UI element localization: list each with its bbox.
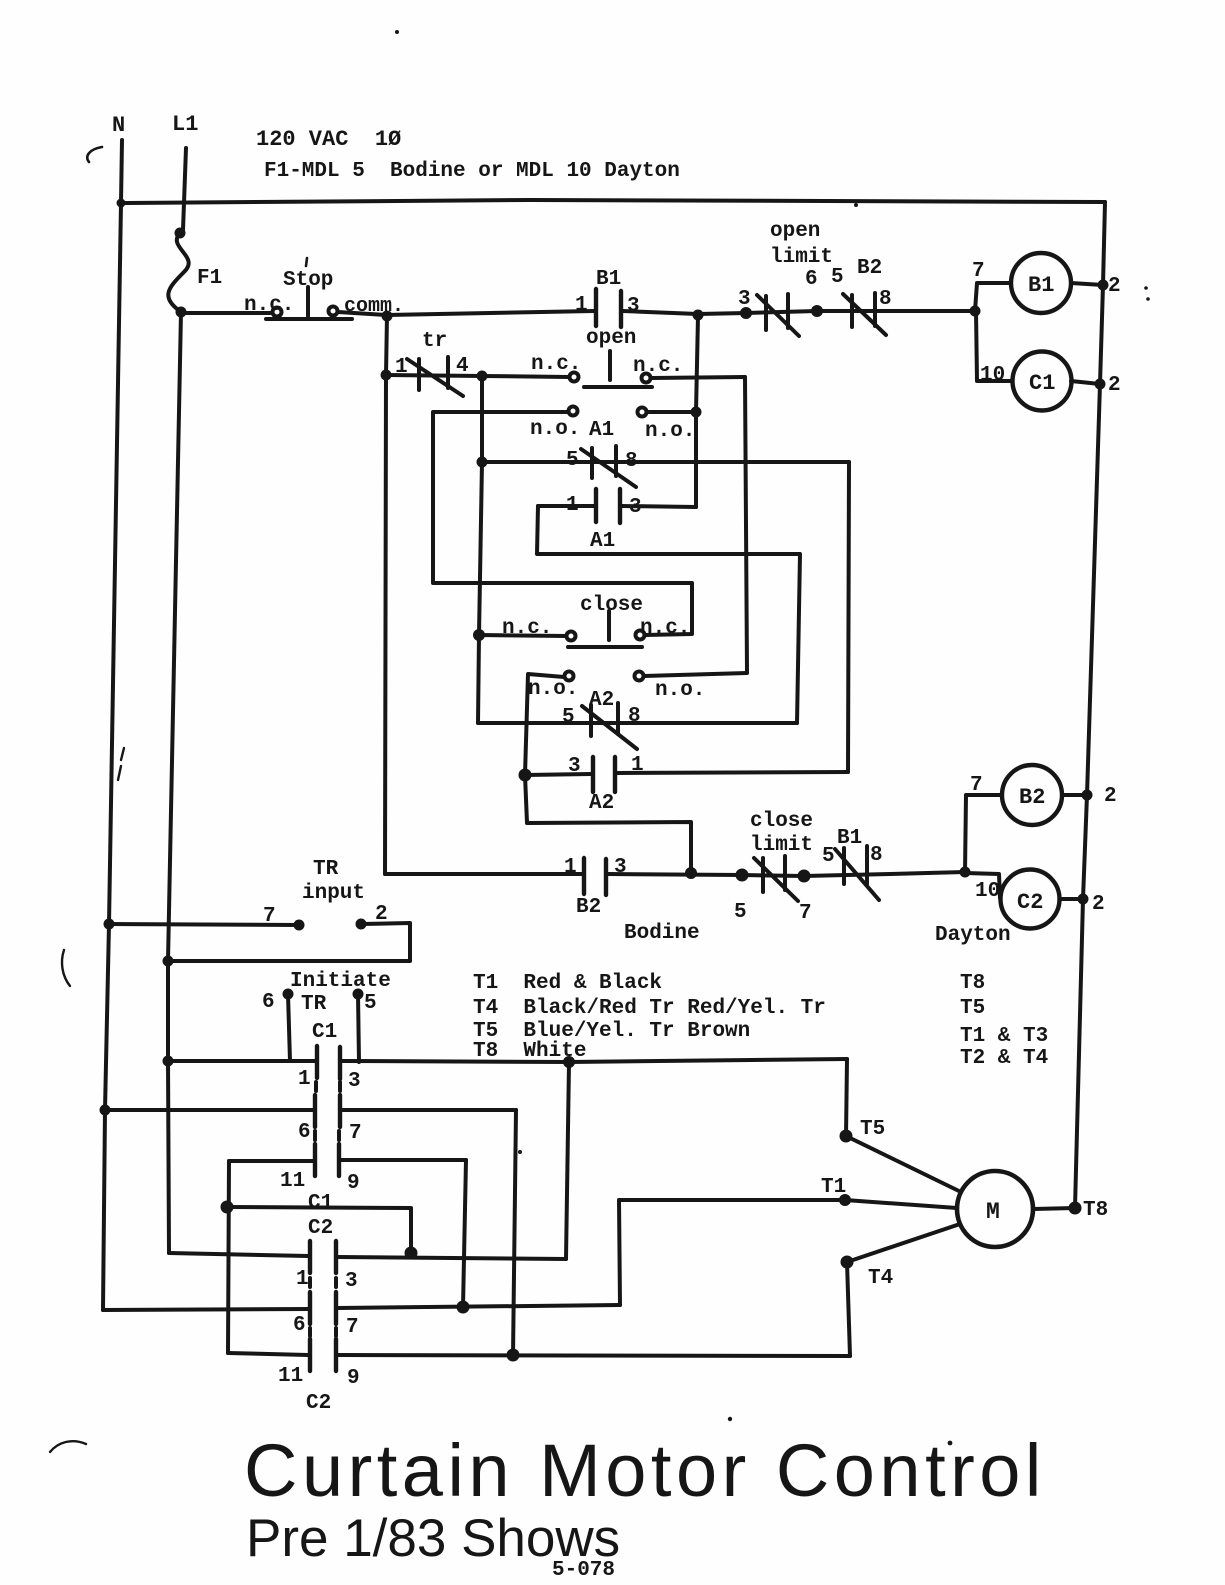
svg-text:tr: tr	[422, 330, 447, 353]
wire T5 to motor	[846, 1136, 961, 1192]
stray scan mark left-middle	[118, 748, 124, 780]
contact C2 1-3	[310, 1241, 566, 1273]
svg-text:n.c.: n.c.	[531, 353, 581, 376]
svg-text:N: N	[112, 113, 125, 138]
svg-text:n.c.: n.c.	[502, 617, 552, 640]
wire right vertical bus	[1075, 202, 1105, 1208]
svg-text:1: 1	[631, 754, 644, 777]
svg-text:F1-MDL 5 Bodine or MDL 10 Day: F1-MDL 5 Bodine or MDL 10 Dayton	[264, 160, 680, 183]
wire A1 5-8 right end down to A2 3-1 rung	[848, 462, 849, 772]
node T1	[839, 1194, 851, 1206]
fuse F1	[168, 232, 188, 312]
wire bracket to coil C2 pin 10	[965, 873, 1000, 898]
wire B2 rung left	[385, 872, 582, 876]
svg-text:C1: C1	[308, 1192, 333, 1215]
junction White tap C1 rung	[563, 1056, 575, 1068]
junction open n.o. right	[691, 407, 702, 418]
svg-text:3: 3	[614, 856, 627, 879]
wire close n.o. right to riser	[644, 673, 747, 676]
contact A2 5-8	[478, 703, 797, 749]
svg-text:7: 7	[263, 905, 276, 928]
junction L1 / C1 1-3 rung	[163, 1056, 174, 1067]
svg-text:3: 3	[345, 1270, 358, 1293]
coil B1	[1011, 253, 1071, 313]
svg-text:C2: C2	[308, 1217, 333, 1240]
terminal Initiate 6	[283, 989, 294, 1000]
speck	[1146, 297, 1150, 301]
svg-text:7: 7	[346, 1316, 359, 1339]
svg-text:T8 White: T8 White	[473, 1040, 586, 1063]
coil C2	[1001, 870, 1060, 929]
svg-text:8: 8	[879, 288, 892, 311]
svg-text:1: 1	[298, 1068, 311, 1091]
coil B2	[1002, 765, 1062, 825]
svg-text:7: 7	[970, 774, 983, 797]
svg-text:7: 7	[799, 902, 812, 925]
svg-text:M: M	[986, 1199, 1000, 1225]
svg-text:6: 6	[805, 268, 818, 291]
wire top rail L1 bus	[121, 200, 1105, 203]
coil C1	[1013, 352, 1072, 411]
svg-text:limit: limit	[750, 834, 813, 857]
svg-text:Bodine: Bodine	[624, 922, 700, 945]
junction close limit left	[736, 869, 749, 882]
contact B2 5-8	[817, 293, 890, 335]
contact A1 1-3	[538, 489, 696, 523]
svg-text:Dayton: Dayton	[935, 924, 1011, 947]
junction open limit left	[740, 307, 752, 319]
wire TR input return to L1	[168, 923, 410, 961]
junction C1 coil to bus	[1095, 379, 1106, 390]
wire link C1 to C2 rung	[227, 1207, 411, 1253]
junction close n.c. left	[473, 629, 485, 641]
pushbutton close (n.o. pair)	[565, 672, 644, 681]
svg-text:1: 1	[564, 856, 577, 879]
node comm	[385, 315, 387, 874]
junction L1 fuse top	[175, 228, 186, 239]
wire tr to open button n.c. left	[482, 376, 569, 377]
wire bracket up to coil B2 pin 7	[965, 795, 1002, 872]
junction N / TR input rung	[104, 919, 115, 930]
svg-text:T8: T8	[1083, 1199, 1108, 1222]
wire B1 contact to open-limit	[623, 311, 746, 314]
wire to coil bracket B2/C2	[890, 872, 965, 874]
svg-text:B2: B2	[1019, 785, 1045, 810]
contact C1 11-9	[229, 1131, 466, 1176]
wire L1 corner into C2 1-3 rung	[169, 1253, 308, 1256]
svg-text:n.c.: n.c.	[640, 617, 690, 640]
svg-text:2: 2	[1104, 785, 1117, 808]
svg-text:Initiate: Initiate	[290, 970, 391, 993]
svg-text:T1 & T3: T1 & T3	[960, 1025, 1048, 1048]
junction link on C1 left riser	[221, 1201, 234, 1214]
svg-text:8: 8	[870, 844, 883, 867]
wire C2 11-9 right end up to T4	[847, 1262, 850, 1356]
speck	[1144, 286, 1148, 290]
svg-text:close: close	[750, 810, 813, 833]
svg-text:Curtain Motor Control: Curtain Motor Control	[244, 1429, 1046, 1512]
svg-text:C1: C1	[312, 1021, 337, 1044]
contact A2 3-1	[525, 757, 848, 792]
wire bracket up to coil B1	[975, 283, 1011, 311]
stray scan mark bottom-left	[50, 1441, 86, 1452]
junction tr rung	[381, 370, 392, 381]
wire motor to T8	[1033, 1208, 1075, 1209]
svg-text:close: close	[580, 594, 643, 617]
svg-text:T5: T5	[860, 1118, 885, 1141]
svg-text:n.o.: n.o.	[655, 679, 705, 702]
svg-text:3: 3	[627, 295, 640, 318]
speck	[728, 1417, 732, 1421]
svg-text:5: 5	[831, 266, 844, 289]
wire A1 1-3 left underpass to A2 5-8 right	[537, 506, 800, 723]
svg-text:T8: T8	[960, 972, 985, 995]
pushbutton open (n.c. pair)	[570, 351, 653, 387]
svg-text:C1: C1	[1029, 371, 1055, 396]
wire fuse to stop button	[181, 311, 270, 315]
wire T1 to motor	[845, 1200, 957, 1208]
svg-text:2: 2	[375, 903, 388, 926]
svg-text:B1: B1	[596, 268, 621, 291]
wire L1 drop to fuse	[183, 148, 186, 230]
svg-text:B1: B1	[837, 827, 862, 850]
wire B2 contact to close limit	[608, 874, 742, 875]
junction fuse bottom	[176, 307, 187, 318]
wire L1 vertical below fuse	[168, 312, 181, 1253]
junction tr right riser	[477, 371, 488, 382]
junction N / C1 6-7 rung	[100, 1105, 111, 1116]
svg-text:T2 & T4: T2 & T4	[960, 1047, 1048, 1070]
svg-text:Stop: Stop	[283, 269, 333, 292]
wire close n.o. left down to A2 3-1 and B2 rung	[525, 674, 691, 873]
svg-text:F1: F1	[197, 267, 222, 290]
contact C2 6-7	[103, 1278, 620, 1324]
speck	[948, 1441, 953, 1446]
svg-text:9: 9	[347, 1172, 360, 1195]
wire to close button n.c. left	[479, 635, 566, 636]
wire Initiate 5 drop	[358, 994, 359, 1062]
junction C2 coil to bus	[1078, 894, 1089, 905]
pushbutton close (n.c. pair)	[567, 611, 645, 647]
svg-text:3: 3	[568, 755, 581, 778]
junction coil bracket B2/C2	[960, 867, 971, 878]
stray scan mark left-lower	[62, 950, 70, 986]
svg-text:T4 Black/Red Tr Red/Yel. Tr: T4 Black/Red Tr Red/Yel. Tr	[473, 997, 826, 1020]
svg-text:10: 10	[975, 880, 1000, 903]
svg-text:A1: A1	[589, 419, 614, 442]
contact B2 1-3	[584, 858, 606, 895]
svg-text:C2: C2	[306, 1392, 331, 1415]
svg-text:TR: TR	[301, 993, 327, 1016]
wire C1 1-3 right end down to T5	[846, 1059, 847, 1136]
junction open limit mid	[811, 305, 823, 317]
svg-text:3: 3	[738, 288, 751, 311]
wire C2 1-3 right end up to C1 rung	[566, 1063, 569, 1259]
svg-text:5: 5	[734, 901, 747, 924]
junction N / top rail	[117, 199, 126, 208]
node T4	[841, 1256, 854, 1269]
svg-text:9: 9	[347, 1367, 360, 1390]
svg-text:2: 2	[1108, 275, 1121, 298]
switch open limit	[746, 294, 817, 336]
wire riser open-nc-right to close-no-right	[745, 377, 747, 672]
speck	[395, 30, 399, 34]
terminal TR input 2	[356, 919, 367, 930]
pushbutton open (n.o. pair)	[569, 407, 647, 417]
junction close limit mid	[798, 870, 811, 883]
junction C2 11-9 rung / riser	[507, 1349, 520, 1362]
svg-text:C2: C2	[1017, 890, 1043, 915]
svg-text:8: 8	[625, 450, 638, 473]
wire open n.c. right to riser	[651, 377, 745, 378]
terminal Initiate 5	[353, 989, 364, 1000]
pushbutton Stop (n.c.)	[266, 287, 352, 319]
wire T4 to motor	[847, 1224, 960, 1262]
svg-text:7: 7	[972, 260, 985, 283]
svg-text:T1 Red & Black: T1 Red & Black	[473, 972, 662, 995]
speck	[854, 203, 858, 207]
wire C1 6-7 right end down to C2 11-9 rung	[513, 1110, 516, 1356]
svg-text:1: 1	[575, 294, 588, 317]
wire open n.o. right to node	[647, 410, 696, 414]
svg-text:8: 8	[628, 705, 641, 728]
svg-text:open: open	[770, 220, 820, 243]
stray scan mark top-left	[87, 147, 102, 162]
svg-text:5: 5	[566, 449, 579, 472]
contact C1 1-3	[168, 1046, 847, 1079]
wire C1 11-9 left riser down to C2 11-9 rung	[228, 1161, 229, 1353]
junction TR return on L1	[163, 956, 174, 967]
junction B1 coil to bus	[1098, 280, 1109, 291]
stray tick above Stop	[306, 258, 307, 266]
contact B1 1-3 (open)	[596, 289, 621, 327]
svg-text:B1: B1	[1028, 273, 1054, 298]
svg-text:1: 1	[296, 1268, 309, 1291]
wire comm to contact B1 1-3	[387, 311, 594, 315]
wire coil B1 to right bus pin 2	[1071, 283, 1103, 285]
wire left riser tr-junction down to A2 5-8 left	[478, 376, 482, 723]
wire open n.o. left cross-route to close n.c. right	[433, 412, 692, 635]
wire node B1-rung down to contact A1 1-3 right	[696, 316, 698, 507]
junction B2 coil to bus	[1082, 790, 1093, 801]
svg-text:T5: T5	[960, 997, 985, 1020]
svg-text:B2: B2	[576, 896, 601, 919]
svg-text:comm.: comm.	[344, 295, 404, 318]
wire coil C1 to right bus pin 2	[1071, 381, 1100, 384]
svg-text:input: input	[302, 882, 365, 905]
svg-text:T4: T4	[868, 1267, 893, 1290]
svg-text:open: open	[586, 327, 636, 350]
contact A1 5-8	[482, 446, 849, 487]
junction B2 rung / A2 drop	[685, 867, 697, 879]
wire stop to comm node	[338, 312, 387, 315]
svg-text:n.o.: n.o.	[528, 678, 578, 701]
contact C2 11-9	[228, 1328, 850, 1371]
svg-text:120 VAC 1Ø: 120 VAC 1Ø	[256, 127, 401, 152]
junction comm	[382, 311, 393, 322]
junction A2 3-1 left	[519, 769, 532, 782]
svg-text:TR: TR	[313, 858, 339, 881]
wire bracket down to coil C1 pin 10	[976, 311, 1012, 381]
contact B1 5-8	[804, 846, 890, 900]
svg-text:n.c.: n.c.	[244, 294, 294, 317]
svg-text:6: 6	[293, 1314, 306, 1337]
svg-text:n.o.: n.o.	[645, 420, 695, 443]
wire N vertical bus	[103, 140, 122, 1310]
svg-text:2: 2	[1092, 893, 1105, 916]
junction link on C2 1-3 rung	[405, 1247, 418, 1260]
svg-text:T1: T1	[821, 1176, 846, 1199]
svg-text:1: 1	[395, 356, 408, 379]
svg-text:5: 5	[364, 992, 377, 1015]
wire coil C2 to right bus pin 2	[1060, 897, 1083, 901]
svg-text:A2: A2	[589, 689, 614, 712]
svg-text:10: 10	[980, 364, 1005, 387]
svg-text:2: 2	[1108, 374, 1121, 397]
svg-text:3: 3	[629, 496, 642, 519]
junction B1 rung right of contact	[693, 310, 704, 321]
junction coil bracket B1/C1	[970, 306, 981, 317]
junction A1 5-8 left	[477, 457, 488, 468]
switch close limit	[742, 856, 804, 901]
wire coil B2 to right bus pin 2	[1062, 793, 1087, 797]
svg-text:3: 3	[348, 1070, 361, 1093]
junction C2 6-7 rung / riser	[457, 1301, 470, 1314]
wire C1 11-9 right end down to C2 6-7 rung	[463, 1160, 466, 1307]
node T5	[840, 1130, 853, 1143]
motor M	[957, 1171, 1033, 1247]
svg-text:limit: limit	[770, 246, 833, 269]
svg-text:n.o.: n.o.	[530, 418, 580, 441]
svg-text:6: 6	[298, 1121, 311, 1144]
svg-text:n.c.: n.c.	[633, 355, 683, 378]
svg-text:A2: A2	[589, 792, 614, 815]
contact C1 6-7	[105, 1082, 516, 1127]
svg-text:L1: L1	[172, 112, 198, 137]
terminal TR input 7	[294, 920, 305, 931]
speck	[518, 1150, 522, 1154]
svg-text:A1: A1	[590, 530, 615, 553]
svg-text:5: 5	[822, 845, 835, 868]
contact tr 1-4	[386, 357, 482, 396]
svg-text:11: 11	[278, 1365, 303, 1388]
svg-text:6: 6	[262, 991, 275, 1014]
wire C2 6-7 right end up to T1	[619, 1200, 845, 1305]
node T8	[1069, 1202, 1082, 1215]
svg-text:5: 5	[562, 706, 575, 729]
wire to coil bracket pin 7	[890, 309, 975, 313]
node N (neutral bus label area)	[103, 140, 122, 1310]
svg-text:B2: B2	[857, 257, 882, 280]
svg-text:1: 1	[566, 494, 579, 517]
svg-text:7: 7	[349, 1122, 362, 1145]
wire TR input rung left from N	[109, 924, 299, 925]
svg-text:4: 4	[456, 355, 469, 378]
wire Initiate 6 drop	[288, 994, 290, 1061]
svg-text:5-078: 5-078	[552, 1559, 615, 1582]
svg-text:11: 11	[280, 1170, 305, 1193]
